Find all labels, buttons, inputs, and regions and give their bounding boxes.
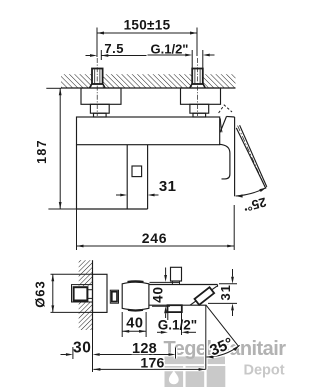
svg-text:G.1/2": G.1/2" [158, 318, 197, 333]
dimension G.1/2" side [167, 312, 169, 320]
dimension 40 vertical [150, 281, 180, 283]
spout end cap bold [195, 287, 215, 305]
dimension 40 horizontal [121, 312, 123, 337]
right nut [190, 104, 209, 113]
connector [110, 290, 118, 303]
dimension 246 [76, 209, 78, 250]
right flare [190, 84, 193, 89]
left flare [90, 84, 93, 89]
flange [93, 274, 108, 312]
watermark logo bar [165, 357, 226, 365]
left centerline [96, 58, 98, 116]
right centerline [196, 58, 198, 116]
svg-text:176: 176 [140, 355, 164, 371]
degree dot [245, 208, 247, 210]
svg-text:246: 246 [142, 230, 167, 246]
left pipe nipple [92, 69, 103, 85]
dimension 128 [100, 354, 169, 356]
left escutcheon [81, 88, 121, 104]
svg-text:30: 30 [73, 340, 91, 357]
side wall face line [92, 260, 94, 330]
dimension 7.5 [86, 55, 91, 57]
side wall hatch [79, 260, 93, 286]
spout side diagonal cut [190, 286, 217, 305]
svg-text:25°: 25° [245, 195, 268, 215]
svg-text:40: 40 [126, 315, 143, 331]
svg-text:187: 187 [35, 139, 49, 164]
watermark tile 1 with droplet [165, 366, 184, 387]
svg-text:7.5: 7.5 [104, 41, 124, 56]
svg-text:Ø63: Ø63 [32, 280, 47, 308]
svg-text:Depot: Depot [244, 363, 285, 379]
lower body [76, 145, 78, 209]
handle lever diagonal [236, 128, 266, 189]
handle blade solid [220, 116, 227, 132]
svg-text:31: 31 [159, 178, 177, 195]
right escutcheon [181, 88, 221, 104]
hose nipple G1/2 [168, 305, 182, 312]
horizontal housing [149, 284, 218, 286]
right pipe nipple [192, 69, 203, 85]
white casing over watermark [93, 329, 239, 370]
left nut [90, 104, 109, 113]
spout tip extension and 35 deg leg [205, 305, 207, 370]
wall hatch band [61, 74, 92, 88]
arc 35 deg [207, 345, 240, 357]
watermark tile 2 [186, 366, 205, 387]
svg-text:40: 40 [151, 286, 166, 303]
svg-text:150±15: 150±15 [124, 18, 171, 33]
spout front [219, 144, 230, 179]
dimension Ø63 [51, 273, 93, 275]
svg-text:G.1/2": G.1/2" [151, 42, 189, 57]
square button [132, 166, 142, 177]
knob [171, 267, 182, 281]
dimension 187 [46, 87, 61, 89]
dimension G.1/2" top [148, 54, 186, 56]
dimension 30 [72, 347, 74, 359]
dimension 31 vertical [219, 283, 237, 285]
handle dashed alternate [219, 105, 232, 113]
svg-text:31: 31 [218, 284, 233, 300]
dimension 150±15 [96, 28, 98, 58]
watermark tile 3 [207, 366, 226, 387]
body cylinder [122, 282, 149, 310]
dimension 176 [93, 368, 205, 370]
body bar [77, 117, 220, 145]
cartridge strip [126, 145, 128, 209]
wall face line [61, 87, 236, 89]
in-wall union [72, 285, 93, 302]
dimension 31 front [116, 194, 120, 196]
arc 25 deg [236, 188, 267, 196]
